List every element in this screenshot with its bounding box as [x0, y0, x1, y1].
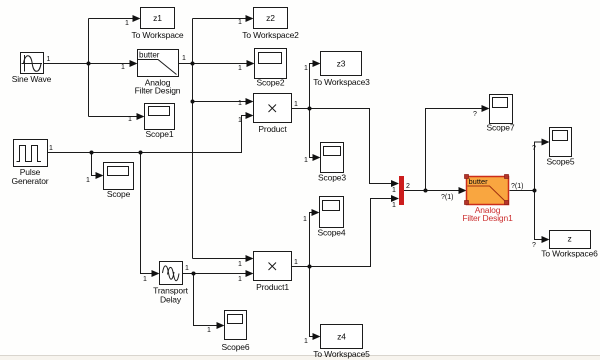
window bottom strip [0, 356, 600, 360]
svg-text:1: 1 [238, 261, 242, 268]
svg-text:1: 1 [47, 56, 51, 63]
block Scope2 [255, 49, 287, 88]
svg-text:1: 1 [238, 117, 242, 124]
wire product branch to z3 [310, 64, 315, 109]
block Scope [104, 163, 134, 200]
svg-text:Generator: Generator [12, 176, 49, 186]
wire sine to filter [44, 63, 131, 65]
wire Analog Filter Design1 output [510, 190, 535, 192]
svg-text:1: 1 [303, 216, 307, 223]
window bottom edge line [0, 355, 600, 356]
svg-text:z: z [567, 234, 571, 244]
junction pulse line 2 [139, 151, 143, 155]
svg-text:?(1): ?(1) [511, 183, 523, 190]
svg-text:1: 1 [304, 338, 308, 345]
junction pulse line 1 [90, 151, 94, 155]
svg-text:Scope1: Scope1 [146, 129, 174, 139]
port label scope2 in 1 [238, 65, 242, 72]
wire filter output to Scope2 [179, 63, 248, 65]
svg-text:1: 1 [294, 101, 298, 108]
wire branch to Product input 1 [193, 101, 247, 103]
svg-text:1: 1 [294, 259, 298, 266]
svg-text:Scope4: Scope4 [318, 228, 346, 238]
mux block red bar [399, 176, 404, 205]
port label delay out 1 [185, 265, 189, 272]
arrowhead into Product input 2 [246, 112, 254, 119]
wire pulse generator to Product input 2 [48, 116, 247, 153]
block Analog Filter Design1 selected orange [462, 175, 513, 224]
port label mux out 2 [406, 183, 410, 190]
port label scope1 in 1 [128, 116, 132, 123]
svg-text:1: 1 [143, 276, 147, 283]
port label scope5 in ? [532, 145, 536, 152]
svg-text:1: 1 [304, 157, 308, 164]
port label tw6 in ? [532, 242, 536, 249]
block z To Workspace6 [541, 231, 598, 259]
port label filter out 1 [182, 55, 186, 62]
svg-text:Sine Wave: Sine Wave [12, 74, 52, 84]
wire product branch to Scope3 [310, 109, 314, 158]
svg-text:To Workspace6: To Workspace6 [541, 249, 598, 259]
port label mux in2 1 [392, 202, 396, 209]
arrowhead into Analog Filter Design1 [459, 187, 467, 194]
arrowhead into Transport Delay [152, 270, 160, 277]
wire delay branch to Scope6 [194, 274, 218, 326]
port label filter1 out ?(1) [511, 183, 523, 190]
port label z2 in 1 [238, 19, 242, 26]
block Sine Wave [12, 53, 52, 85]
svg-text:To Workspace: To Workspace [132, 30, 184, 40]
wire filter branch vertical x192 [192, 19, 194, 259]
svg-text:To Workspace3: To Workspace3 [313, 77, 370, 87]
port label product out 1 [294, 101, 298, 108]
svg-text:To Workspace5: To Workspace5 [313, 349, 370, 359]
arrowhead into Mux input 1 [391, 180, 399, 187]
svg-text:1: 1 [392, 187, 396, 194]
port label delay in 1 [143, 276, 147, 283]
junction product output [308, 107, 312, 111]
svg-text:1: 1 [238, 65, 242, 72]
svg-text:1: 1 [182, 55, 186, 62]
port label mux in1 1 [392, 187, 396, 194]
wire Transport Delay output to Product1 input 2 [183, 273, 247, 275]
svg-text:1: 1 [49, 145, 53, 152]
block z4 To Workspace5 [313, 325, 370, 360]
svg-text:1: 1 [86, 177, 90, 184]
port label product1 out 1 [294, 259, 298, 266]
arrowhead into z2 [246, 15, 254, 22]
arrowhead into Scope5 [542, 139, 550, 146]
junction product1 output [308, 265, 312, 269]
block Scope1 [145, 104, 175, 140]
block z3 To Workspace3 [313, 52, 370, 88]
arrowhead into Scope [96, 172, 104, 179]
port label product1 in1 1 [238, 261, 242, 268]
svg-text:1: 1 [304, 65, 308, 72]
arrowhead into Scope2 [247, 60, 255, 67]
svg-text:?: ? [473, 111, 477, 118]
block Scope6 [222, 311, 250, 353]
arrowhead into Product1 input 2 [246, 270, 254, 277]
svg-text:Scope6: Scope6 [222, 342, 250, 352]
port label pulse out 1 [49, 145, 53, 152]
svg-text:Scope: Scope [107, 189, 131, 199]
port label product1 in2 1 [238, 276, 242, 283]
svg-text:To Workspace2: To Workspace2 [242, 30, 299, 40]
junction filter line mid [191, 100, 195, 104]
svg-text:butter: butter [469, 177, 489, 186]
arrowhead into Scope6 [217, 322, 225, 329]
arrowhead into Scope4 [312, 209, 320, 216]
port label scope in 1 [86, 177, 90, 184]
svg-text:1: 1 [392, 202, 396, 209]
junction sine line [87, 62, 91, 66]
svg-text:z4: z4 [337, 332, 346, 342]
arrowhead into To Workspace6 [542, 236, 550, 243]
port label scope7 in ? [473, 111, 477, 118]
wire mux branch to Scope7 [426, 109, 483, 191]
svg-text:Scope2: Scope2 [257, 78, 285, 88]
port label product in1 1 [238, 100, 242, 107]
block Analog Filter Design [135, 50, 181, 96]
wire branch to Scope5 [535, 142, 543, 191]
svg-text:1: 1 [238, 100, 242, 107]
arrowhead into Scope1 [137, 113, 145, 120]
svg-text:?: ? [532, 242, 536, 249]
arrowhead into z3 [313, 60, 321, 67]
junction mux output [424, 189, 428, 193]
svg-text:Delay: Delay [160, 295, 182, 305]
port label z4 in 1 [304, 338, 308, 345]
wire sine branch vertical x88 [88, 19, 90, 117]
svg-text:2: 2 [406, 183, 410, 190]
block Product1 [254, 252, 292, 293]
svg-text:Product1: Product1 [256, 282, 289, 292]
svg-text:1: 1 [238, 19, 242, 26]
svg-text:?: ? [532, 145, 536, 152]
arrowhead into Product input 1 [246, 98, 254, 105]
svg-text:z1: z1 [153, 13, 162, 23]
junction delay output [192, 272, 196, 276]
svg-text:Scope7: Scope7 [487, 123, 515, 133]
svg-text:z2: z2 [266, 13, 275, 23]
svg-text:1: 1 [128, 116, 132, 123]
wire Product output to Mux input 1 [292, 109, 393, 184]
svg-text:1: 1 [125, 20, 129, 27]
arrowhead into Mux input 2 [391, 195, 399, 202]
wire Mux output to Analog Filter Design1 [404, 190, 459, 192]
arrowhead into Product1 input 1 [246, 255, 254, 262]
svg-text:Scope5: Scope5 [547, 157, 575, 167]
port label scope6 in 1 [207, 327, 211, 334]
block Product [254, 94, 292, 135]
arrowhead into Analog Filter Design [130, 60, 138, 67]
wire branch to Scope1 [89, 116, 138, 118]
port label scope4 in 1 [303, 216, 307, 223]
junction filter line top [191, 62, 195, 66]
svg-text:Filter Design1: Filter Design1 [462, 213, 513, 223]
svg-text:Scope3: Scope3 [318, 173, 346, 183]
wire pulse branch to Transport Delay [141, 153, 153, 274]
wire Product1 output to Mux input 2 [292, 199, 393, 267]
wire branch to z2 [193, 18, 247, 20]
junction filter1 output [533, 189, 537, 193]
port label z3 in 1 [304, 65, 308, 72]
wire product1 branch to z4 [310, 267, 314, 337]
port label product in2 1 [238, 117, 242, 124]
port label z1 in 1 [125, 20, 129, 27]
wire product1 branch to Scope4 [310, 213, 313, 267]
arrowhead into z4 [313, 333, 321, 340]
block Scope3 [318, 143, 346, 183]
port label scope3 in 1 [304, 157, 308, 164]
svg-text:?(1): ?(1) [441, 194, 453, 201]
block Scope7 [487, 95, 515, 133]
arrowhead into Scope3 [313, 154, 321, 161]
svg-text:Product: Product [258, 124, 287, 134]
svg-text:1: 1 [207, 327, 211, 334]
block Transport Delay [153, 262, 188, 305]
block Scope4 [318, 197, 346, 238]
arrowhead into z1 [133, 15, 141, 22]
wire branch to To Workspace6 [535, 191, 543, 240]
wire pulse branch to Scope [92, 153, 97, 176]
block z2 To Workspace2 [242, 8, 299, 41]
svg-text:butter: butter [139, 51, 160, 60]
svg-text:Filter Design: Filter Design [135, 86, 181, 96]
port label filter1 in ?(1) [441, 194, 453, 201]
svg-text:z3: z3 [337, 59, 346, 69]
block z1 To Workspace [132, 8, 184, 41]
svg-text:1: 1 [121, 64, 125, 71]
wire branch to Product1 input 1 [193, 258, 247, 260]
wire branch to z1 To Workspace [89, 18, 134, 20]
block Pulse Generator [12, 140, 49, 187]
svg-text:1: 1 [238, 276, 242, 283]
block Scope5 [547, 128, 575, 167]
arrowhead into Scope7 [482, 105, 490, 112]
port label filter in 1 [121, 64, 125, 71]
port label sine out 1 [47, 56, 51, 63]
svg-text:1: 1 [185, 265, 189, 272]
